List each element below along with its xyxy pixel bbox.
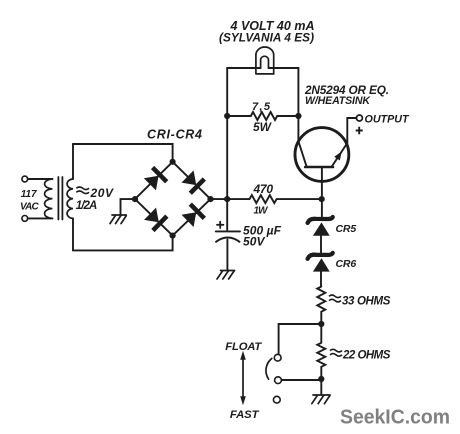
capacitor C1 bottom plate xyxy=(216,238,240,242)
wire base lead xyxy=(321,167,323,218)
node lamp/resistor right xyxy=(295,113,301,119)
svg-text:CR6: CR6 xyxy=(336,258,357,270)
wire middle contact to R4 bottom junction xyxy=(282,379,322,381)
node bridge right xyxy=(207,196,213,202)
node base junction xyxy=(319,196,325,202)
terminal top (117 VAC) xyxy=(22,176,28,182)
svg-text:20V: 20V xyxy=(90,186,114,200)
transistor Q1 base bar xyxy=(305,166,333,169)
node R3/R4 junction xyxy=(318,321,324,327)
capacitor C1 top plate xyxy=(216,230,240,232)
svg-text:1/2A: 1/2A xyxy=(76,200,98,212)
svg-text:5W: 5W xyxy=(253,120,273,134)
wire CR5 to CR6 xyxy=(320,236,322,253)
lamp DS1 filament xyxy=(261,56,269,68)
transformer T1 core xyxy=(58,177,62,220)
wire bottom rail xyxy=(73,236,173,251)
svg-text:1W: 1W xyxy=(254,206,270,217)
diode CR3 (bottom-left arm) xyxy=(143,207,168,232)
wire xyxy=(28,178,53,180)
label 33 OHMS approx squiggle xyxy=(329,295,341,302)
svg-text:50V: 50V xyxy=(243,235,265,249)
svg-text:(SYLVANIA 4 ES): (SYLVANIA 4 ES) xyxy=(219,31,314,45)
svg-text:FAST: FAST xyxy=(230,409,260,421)
svg-text:VAC: VAC xyxy=(20,202,39,213)
ground (bottom) xyxy=(312,395,330,404)
bridge diamond wires xyxy=(135,162,211,236)
label 20V approx squiggle xyxy=(76,187,89,194)
terminal OUTPUT xyxy=(356,115,362,121)
svg-text:OUTPUT: OUTPUT xyxy=(365,114,410,126)
node lamp/resistor left xyxy=(224,113,230,119)
transformer T1 secondary winding xyxy=(67,179,73,218)
svg-text:470: 470 xyxy=(253,182,274,196)
resistor R4 22 OHMS xyxy=(317,324,325,379)
ground (bridge left) xyxy=(110,215,126,224)
wire bridge left corner to ground xyxy=(121,199,136,215)
svg-text:CRI-CR4: CRI-CR4 xyxy=(147,128,202,142)
transistor Q1 emitter line xyxy=(298,141,306,166)
diode CR5 xyxy=(308,217,333,236)
wire lamp branch right xyxy=(269,68,299,116)
resistor R1 7.5 5W xyxy=(227,112,298,120)
svg-text:22 OHMS: 22 OHMS xyxy=(342,350,391,362)
svg-text:SeekIC.com: SeekIC.com xyxy=(340,407,450,429)
wire main left vertical xyxy=(226,68,228,230)
diode CR4 (bottom-right arm) xyxy=(181,203,206,228)
wire xyxy=(28,217,53,219)
FLOAT/FAST arrow xyxy=(240,351,246,405)
wire emitter vertical xyxy=(297,116,299,141)
wire lamp branch left xyxy=(227,67,260,69)
wire secondary bottom to bottom rail xyxy=(72,218,74,250)
wire capacitor to ground xyxy=(226,240,228,271)
diode CR1 (top-left arm) xyxy=(143,166,168,191)
switch S1 bottom contact xyxy=(273,396,280,403)
svg-text:33 OHMS: 33 OHMS xyxy=(342,296,391,308)
svg-text:FLOAT: FLOAT xyxy=(225,341,262,353)
lamp DS1 envelope xyxy=(256,47,274,74)
label output plus xyxy=(356,127,363,134)
svg-text:W/HEATSINK: W/HEATSINK xyxy=(305,95,371,107)
capacitor plus sign xyxy=(217,222,223,228)
wire top rail xyxy=(73,144,173,163)
node filter junction xyxy=(224,196,230,202)
transistor Q1 collector line xyxy=(332,143,347,166)
node bridge bottom xyxy=(170,233,176,239)
diode CR2 (top-right arm) xyxy=(181,169,206,194)
wire junction to switch xyxy=(279,324,322,354)
ground (below capacitor) xyxy=(217,271,235,280)
resistor R3 33 OHMS xyxy=(317,287,325,325)
svg-text:117: 117 xyxy=(21,189,37,200)
transistor Q1 2N5294 circle xyxy=(295,128,349,182)
transformer T1 primary winding xyxy=(45,179,53,218)
switch S1 top contact xyxy=(274,354,281,361)
resistor R2 470 1W xyxy=(227,195,322,203)
wire bridge right corner to main vertical xyxy=(211,198,228,200)
wire collector to output xyxy=(347,118,356,143)
svg-text:7,5: 7,5 xyxy=(252,101,271,113)
label 22 OHMS approx squiggle xyxy=(330,349,342,356)
node bridge left xyxy=(132,196,138,202)
wire CR6 to R3 xyxy=(320,272,322,287)
transistor Q1 collector arrow xyxy=(334,150,344,161)
switch S1 wiper arc xyxy=(266,358,272,379)
switch S1 middle contact xyxy=(275,377,282,384)
svg-text:CR5: CR5 xyxy=(336,223,357,235)
node bridge top xyxy=(170,159,176,165)
terminal bottom (117 VAC) xyxy=(22,216,28,222)
wire to ground xyxy=(320,379,322,395)
diode CR6 xyxy=(308,253,333,272)
node bottom junction xyxy=(318,376,324,382)
wire secondary top to top rail xyxy=(72,144,74,179)
